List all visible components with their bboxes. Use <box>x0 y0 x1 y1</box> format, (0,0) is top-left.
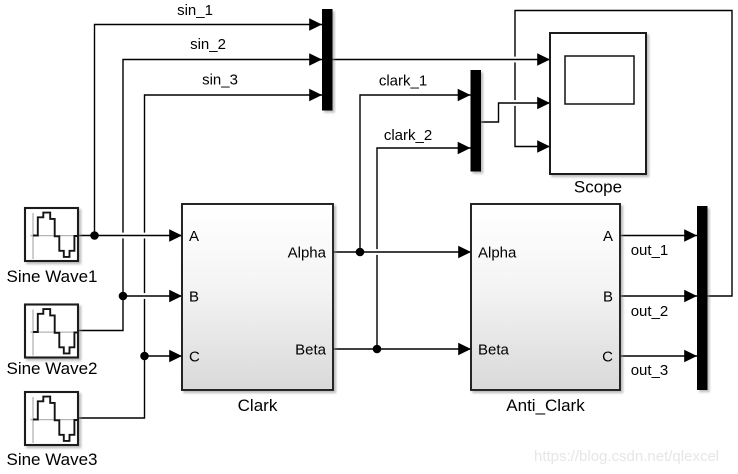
block Scope <box>550 33 646 174</box>
svg-text:A: A <box>189 228 199 245</box>
wire Mux sin output to Scope input 1 <box>333 59 551 61</box>
arrowhead into Mux sin input 2 <box>309 53 322 66</box>
block Clark (subsystem) <box>182 204 333 390</box>
svg-text:Clark: Clark <box>238 396 278 415</box>
arrowhead into Mux clark input 2 <box>458 142 471 155</box>
mux Mux_clark (middle) <box>471 70 482 172</box>
junction dot node sin_1 <box>90 231 99 240</box>
svg-text:Alpha: Alpha <box>478 244 517 261</box>
wire sin_3 (Sine Wave3 output up to Mux) <box>79 299 145 418</box>
svg-text:https://blog.csdn.net/qlexcel: https://blog.csdn.net/qlexcel <box>534 448 719 465</box>
svg-text:Scope: Scope <box>574 178 622 197</box>
arrowhead into Mux out input 2 <box>684 290 697 303</box>
arrowhead into Mux sin input 1 <box>309 18 322 31</box>
svg-text:out_3: out_3 <box>631 362 669 379</box>
svg-text:sin_2: sin_2 <box>190 36 226 53</box>
wire out_1 Anti_Clark A to Mux2 <box>620 235 697 237</box>
svg-text:clark_1: clark_1 <box>379 73 427 90</box>
svg-text:C: C <box>602 348 613 365</box>
wire Sine Wave1 output to Clark A <box>78 235 182 237</box>
arrowhead into Mux sin input 3 <box>309 89 322 102</box>
svg-text:out_2: out_2 <box>631 303 669 320</box>
wire Clark Beta to Anti_Clark Beta <box>333 348 471 350</box>
svg-text:clark_2: clark_2 <box>384 127 432 144</box>
wire branch to Clark C <box>145 355 183 357</box>
wire Mux out output wrap-around to Scope input 3 <box>515 11 732 297</box>
svg-text:out_1: out_1 <box>631 242 669 259</box>
arrowhead into Clark A <box>169 229 182 242</box>
svg-text:Sine Wave1: Sine Wave1 <box>6 267 97 286</box>
arrowhead into Clark C <box>169 350 182 363</box>
block Sine Wave3 <box>25 392 78 445</box>
block Anti_Clark (subsystem) <box>471 204 620 390</box>
wire Mux clark output to Scope input 2 <box>481 103 550 122</box>
svg-text:Anti_Clark: Anti_Clark <box>506 396 585 415</box>
wire clark_1 branch up to Mux1 <box>360 95 471 252</box>
svg-text:C: C <box>189 348 200 365</box>
wire out_2 Anti_Clark B to Mux2 <box>620 295 697 297</box>
wire out_3 Anti_Clark C to Mux2 <box>620 355 697 357</box>
svg-text:A: A <box>603 228 613 245</box>
junction dot node clark_1 <box>356 248 365 257</box>
arrowhead into Scope input 2 <box>537 97 550 110</box>
arrowhead into Anti_Clark Beta <box>458 343 471 356</box>
block Sine Wave1 <box>25 208 78 261</box>
arrowhead into Anti_Clark Alpha <box>458 246 471 259</box>
arrowhead into Scope input 1 <box>537 53 550 66</box>
wire Clark Alpha to Anti_Clark Alpha <box>333 251 471 253</box>
arrowhead into Mux out input 3 <box>684 350 697 363</box>
svg-text:B: B <box>189 288 199 305</box>
arrowhead into Scope input 3 <box>537 140 550 153</box>
block Sine Wave2 <box>25 305 78 358</box>
arrowhead into Mux out input 1 <box>684 229 697 242</box>
svg-text:Alpha: Alpha <box>288 244 327 261</box>
wire sin_1 (Sine Wave1 branch up to Mux) <box>95 25 323 236</box>
mux Mux_out (right) <box>697 206 708 390</box>
wire clark_2 branch up to Mux1 <box>376 255 378 349</box>
wire branch to Clark B <box>123 295 182 297</box>
scope screen <box>565 56 634 104</box>
arrowhead into Mux clark input 1 <box>458 89 471 102</box>
wire sin_2 (Sine Wave2 output up to Mux) <box>79 238 123 330</box>
junction dot node sin_3 <box>140 352 149 361</box>
svg-text:Beta: Beta <box>478 341 510 358</box>
svg-text:Sine Wave3: Sine Wave3 <box>6 450 97 469</box>
junction dot node sin_2 <box>119 292 128 301</box>
mux Mux_sin (top) <box>322 9 333 111</box>
svg-text:sin_3: sin_3 <box>202 72 238 89</box>
svg-text:Beta: Beta <box>295 341 327 358</box>
svg-text:Sine Wave2: Sine Wave2 <box>6 359 97 378</box>
svg-text:sin_1: sin_1 <box>177 2 213 19</box>
junction dot node clark_2 <box>373 345 382 354</box>
svg-text:B: B <box>603 288 613 305</box>
arrowhead into Clark B <box>169 290 182 303</box>
